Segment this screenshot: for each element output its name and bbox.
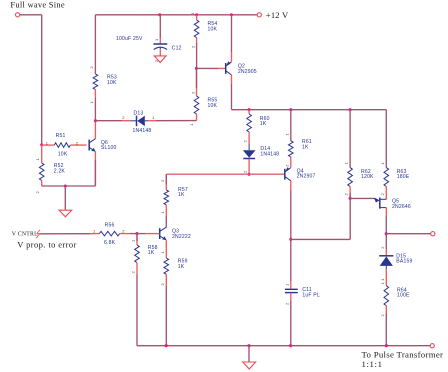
resistor R57 (164, 190, 169, 205)
svg-text:1K: 1K (302, 144, 309, 150)
pin 2 R53 (89, 66, 94, 69)
pin 1 R58 (131, 239, 136, 242)
svg-text:To Pulse Transformer: To Pulse Transformer (362, 349, 444, 359)
node C12 tap (158, 13, 161, 16)
transistor Q5 (373, 197, 387, 208)
wire R60 bottom stub (248, 132, 250, 145)
pin 2 R54 (190, 45, 195, 48)
node Q5 emitter junction (349, 197, 352, 200)
pin 1 R51 (46, 140, 49, 145)
wire R53 bottom stub (94, 90, 96, 121)
label R59 (178, 259, 188, 270)
wire R54 bottom stub (196, 38, 198, 69)
wire emitter rail (42, 185, 96, 187)
svg-text:2N2222: 2N2222 (172, 234, 191, 240)
resistor R56 (99, 231, 119, 236)
terminal T3 (431, 232, 435, 236)
wire Q5 B1 down (385, 208, 387, 234)
svg-text:1K: 1K (148, 250, 155, 256)
pin 1 R63 (380, 162, 385, 165)
wire R62 top (349, 110, 351, 168)
wire Q6 collector stub (94, 121, 96, 139)
node D15 junction (385, 232, 388, 235)
label R55 (208, 98, 218, 109)
resistor R54 (194, 20, 199, 38)
text +12 V (266, 10, 289, 20)
node C11 bottom tap (289, 344, 292, 347)
svg-text:2N2907: 2N2907 (297, 174, 316, 180)
svg-text:V CNTRL: V CNTRL (12, 231, 38, 237)
resistor R63 (384, 168, 389, 187)
wire R63 top (385, 110, 387, 168)
svg-text:1N4148: 1N4148 (133, 128, 152, 134)
label R53 (107, 75, 117, 86)
text To Pulse Transformer (362, 349, 444, 359)
wire C12 ground stub (159, 50, 161, 56)
label 100uF 25V (116, 36, 143, 42)
svg-text:1K: 1K (260, 121, 267, 127)
pin 1 R61 (284, 133, 289, 136)
svg-text:SL100: SL100 (101, 145, 117, 151)
resistor R52 (39, 163, 44, 181)
pin 1 R57 (160, 211, 165, 214)
pin 2 R59 (160, 283, 165, 286)
wire bottom rail (137, 345, 430, 347)
svg-text:1:1:1: 1:1:1 (362, 359, 383, 369)
pin 2 R56 (122, 228, 125, 233)
wire R61 top (290, 110, 292, 141)
wire R64 bottom (385, 306, 387, 346)
label Q6 SL100 (101, 140, 117, 151)
wire D13 left (95, 120, 130, 122)
pin 1 R54 (191, 13, 195, 15)
pin 1 D15 (380, 278, 385, 281)
terminal V CNTRL glyph (36, 230, 40, 238)
diode D15 (379, 256, 393, 266)
svg-text:R51: R51 (56, 133, 66, 139)
wire Q2 emitter (231, 15, 233, 62)
wire R58 top stub (136, 234, 138, 245)
wire Q6 emitter stub (94, 152, 96, 186)
transistor Q6 (89, 139, 95, 152)
wire Q2 base (196, 67, 225, 69)
label R62 (361, 169, 374, 180)
resistor R58 (135, 245, 140, 263)
wire R61 bottom stub (290, 157, 292, 167)
svg-text:10K: 10K (208, 26, 218, 32)
wire R51 right stub (70, 144, 86, 146)
svg-text:100uF 25V: 100uF 25V (116, 36, 143, 42)
pin 2 D14 (243, 170, 248, 173)
wire input vertical (41, 15, 43, 145)
svg-text:Full wave Sine: Full wave Sine (10, 0, 65, 9)
node R54 tap (195, 13, 198, 16)
label R58 (148, 245, 158, 256)
ground G1 (59, 210, 72, 217)
pin 2 R55 (190, 91, 195, 94)
wire base row (166, 173, 284, 175)
ground G3 (243, 362, 256, 369)
label Q3 2N2222 (172, 229, 191, 240)
text Full wave Sine (10, 0, 65, 9)
resistor R59 (164, 258, 169, 274)
pin 1 C11 (284, 283, 289, 286)
label C12 (172, 46, 182, 52)
pin 1 R53 (89, 101, 94, 104)
resistor R55 (194, 96, 199, 114)
wire R60 top stub (248, 110, 250, 114)
label R60 (260, 116, 270, 127)
diode D14 (243, 150, 256, 158)
pin 1 R62 (344, 162, 349, 165)
resistor R60 (247, 114, 252, 132)
pin 2 C12 (154, 59, 159, 62)
pin 2 R51 (76, 140, 79, 145)
node R60 tap (248, 108, 251, 111)
node R61 tap (289, 108, 292, 111)
wire R63 bottom stub (385, 187, 387, 200)
svg-text:2N2905: 2N2905 (238, 69, 257, 75)
svg-text:R56: R56 (105, 223, 115, 229)
pin 1 D13 (152, 115, 155, 120)
pin 2 C11 (284, 302, 289, 305)
svg-text:1uF PL: 1uF PL (302, 293, 320, 299)
svg-text:+12 V: +12 V (266, 10, 289, 20)
node R64 bottom tap (385, 344, 388, 347)
label Q5 2N2646 (392, 199, 411, 210)
label D14 (260, 146, 279, 157)
wire D15 top stub (385, 234, 387, 256)
node D14 junction (248, 173, 251, 176)
svg-text:1: 1 (191, 13, 195, 15)
text 1:1:1 (362, 359, 383, 369)
wire Q5 emitter (350, 197, 373, 199)
wire R54 top stub (196, 15, 198, 20)
svg-text:120K: 120K (361, 174, 374, 180)
terminal T4 (430, 344, 434, 348)
pin 2 R61 (284, 164, 289, 167)
label R63 (397, 169, 410, 180)
wire R58 bottom (136, 263, 138, 346)
svg-text:6.8K: 6.8K (104, 240, 116, 246)
resistor R61 (289, 141, 294, 157)
node R51-R52 junction (40, 143, 43, 146)
svg-text:V prop. to error: V prop. to error (17, 239, 77, 249)
pin 1 R55 (189, 123, 194, 126)
wire D14 bottom (248, 159, 250, 174)
label R56 (104, 223, 116, 246)
wire R59 top stub (165, 240, 167, 258)
label C11 (302, 287, 320, 298)
transistor Q2 (226, 61, 232, 75)
svg-text:1N4148: 1N4148 (260, 152, 279, 158)
wire R57 top stub (165, 174, 167, 190)
text V prop. to error (17, 239, 77, 249)
wire mid rail (232, 109, 387, 111)
wire ground stub (64, 186, 66, 210)
node R59 bottom tap (165, 344, 168, 347)
label D15 (396, 253, 412, 264)
wire jog horizontal (291, 238, 350, 240)
wire ground stub bottom (248, 346, 250, 362)
wire C11 bottom (290, 293, 292, 346)
label Q2 2N2905 (238, 64, 257, 75)
pin 1 R59 (160, 251, 165, 254)
wire R56 left (39, 233, 99, 235)
svg-text:BA159: BA159 (396, 259, 412, 265)
pin 2 R60 (243, 140, 248, 143)
pin 1 R52 (35, 158, 40, 161)
node C11 junction (289, 238, 292, 241)
node Q2 base junction (195, 67, 198, 70)
wire R51 left stub (42, 144, 55, 146)
wire R56 right stub (120, 233, 137, 235)
diode D13 (131, 116, 149, 127)
node Q2 tap (230, 13, 233, 16)
node R53-D13 junction (94, 119, 97, 122)
pin 2 D15 (380, 246, 385, 249)
label R54 (208, 21, 218, 32)
svg-text:2.2K: 2.2K (54, 168, 66, 174)
label R64 (397, 287, 410, 298)
wire R52 bottom stub (41, 181, 43, 187)
svg-text:10K: 10K (58, 152, 68, 158)
node ground tap (247, 344, 250, 347)
wire R59 bottom (165, 274, 167, 345)
pin 2 R63 (380, 193, 385, 196)
wire R53 top (94, 15, 96, 74)
wire Q2 collector (231, 75, 233, 110)
svg-text:2N2646: 2N2646 (392, 204, 411, 210)
wire R57 bottom stub (165, 205, 167, 228)
svg-text:10K: 10K (208, 103, 218, 109)
wire R55 bottom stub (196, 114, 198, 121)
pin 2 R52 (35, 191, 40, 194)
wire R62 bottom stub (349, 187, 351, 199)
svg-text:C12: C12 (172, 46, 182, 52)
label R51 value (56, 133, 68, 157)
wire C11 top (290, 239, 292, 288)
wire C12 top (159, 15, 161, 44)
node ground junction (64, 184, 67, 187)
ground G2 C12 (154, 56, 166, 63)
transistor Q3 (160, 227, 167, 240)
terminal +12V (257, 13, 261, 17)
wire +12V rail (95, 14, 257, 16)
label R57 (178, 187, 188, 198)
pin 2 D13 (122, 115, 125, 120)
terminal Full wave Sine input (16, 13, 20, 17)
pin 2 R62 (344, 193, 349, 196)
pin 1 C12 (154, 38, 159, 41)
wire jog vertical (349, 198, 351, 239)
resistor R64 (384, 286, 389, 306)
svg-text:10K: 10K (107, 80, 117, 86)
pin 2 R64 (380, 314, 385, 317)
capacitor C12 (153, 44, 167, 50)
wire D14 top (248, 145, 250, 151)
svg-text:1K: 1K (178, 264, 185, 270)
wire D13 right (148, 120, 196, 122)
pin 2 R58 (131, 271, 136, 274)
label R52 (54, 163, 66, 174)
resistor R62 (348, 168, 353, 187)
svg-text:1K: 1K (178, 192, 185, 198)
wire D15 bottom (385, 266, 387, 275)
node Q3 base junction (135, 232, 138, 235)
pin 1 R56 (93, 228, 96, 233)
text V CNTRL (12, 231, 38, 237)
svg-text:180E: 180E (397, 174, 410, 180)
wire R52 top stub (41, 145, 43, 163)
label R61 (302, 139, 312, 150)
wire Q4 collector (290, 181, 292, 240)
transistor Q4 (285, 167, 291, 181)
capacitor C11 (285, 289, 298, 292)
label Q4 2N2907 (297, 168, 316, 179)
label D13 (133, 110, 152, 134)
wire R64 top stub (385, 275, 387, 286)
resistor R51 (54, 143, 70, 148)
wire Q3 base (137, 233, 159, 235)
pin 1 R64 (380, 282, 385, 285)
wire R55 top stub (196, 68, 198, 96)
node R62 tap (349, 108, 352, 111)
wire to terminal T3 (386, 233, 430, 235)
resistor R53 (93, 74, 98, 90)
svg-text:D13: D13 (134, 110, 144, 116)
wire input to corner (20, 14, 42, 16)
pin 2 R57 (160, 179, 165, 182)
svg-text:100E: 100E (397, 293, 410, 299)
